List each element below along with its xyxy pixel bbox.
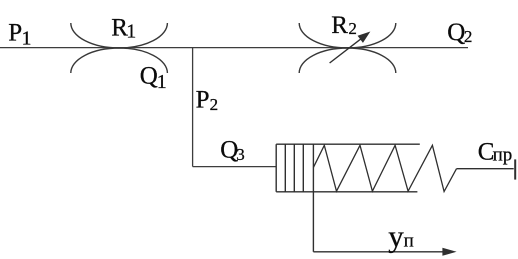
svg-text:P2: P2 — [196, 87, 219, 114]
arrowhead yp — [442, 248, 456, 256]
piston rod — [312, 144, 314, 252]
restrictor R1 — [71, 23, 168, 73]
svg-text:Q1: Q1 — [140, 63, 167, 93]
svg-text:R1: R1 — [111, 14, 136, 42]
svg-text:Q3: Q3 — [220, 137, 245, 164]
arrow on R2 — [330, 33, 369, 63]
anchor wall — [514, 159, 516, 179]
svg-text:Q2: Q2 — [447, 19, 472, 46]
cylinder body — [276, 144, 420, 192]
svg-text:P1: P1 — [8, 20, 31, 50]
wire spring anchor — [457, 168, 514, 170]
svg-text:Cпр: Cпр — [478, 138, 512, 165]
svg-text:уп: уп — [388, 219, 414, 254]
wire Q3 horizontal to cylinder — [193, 166, 277, 168]
wire main line P1 to Q2 — [0, 47, 468, 49]
restrictor R2 (variable) — [299, 23, 396, 73]
wire output yp — [313, 251, 446, 253]
svg-text:R2: R2 — [331, 12, 357, 39]
piston lands — [285, 144, 303, 192]
wire P2 branch vertical — [192, 48, 194, 167]
spring — [313, 145, 456, 191]
